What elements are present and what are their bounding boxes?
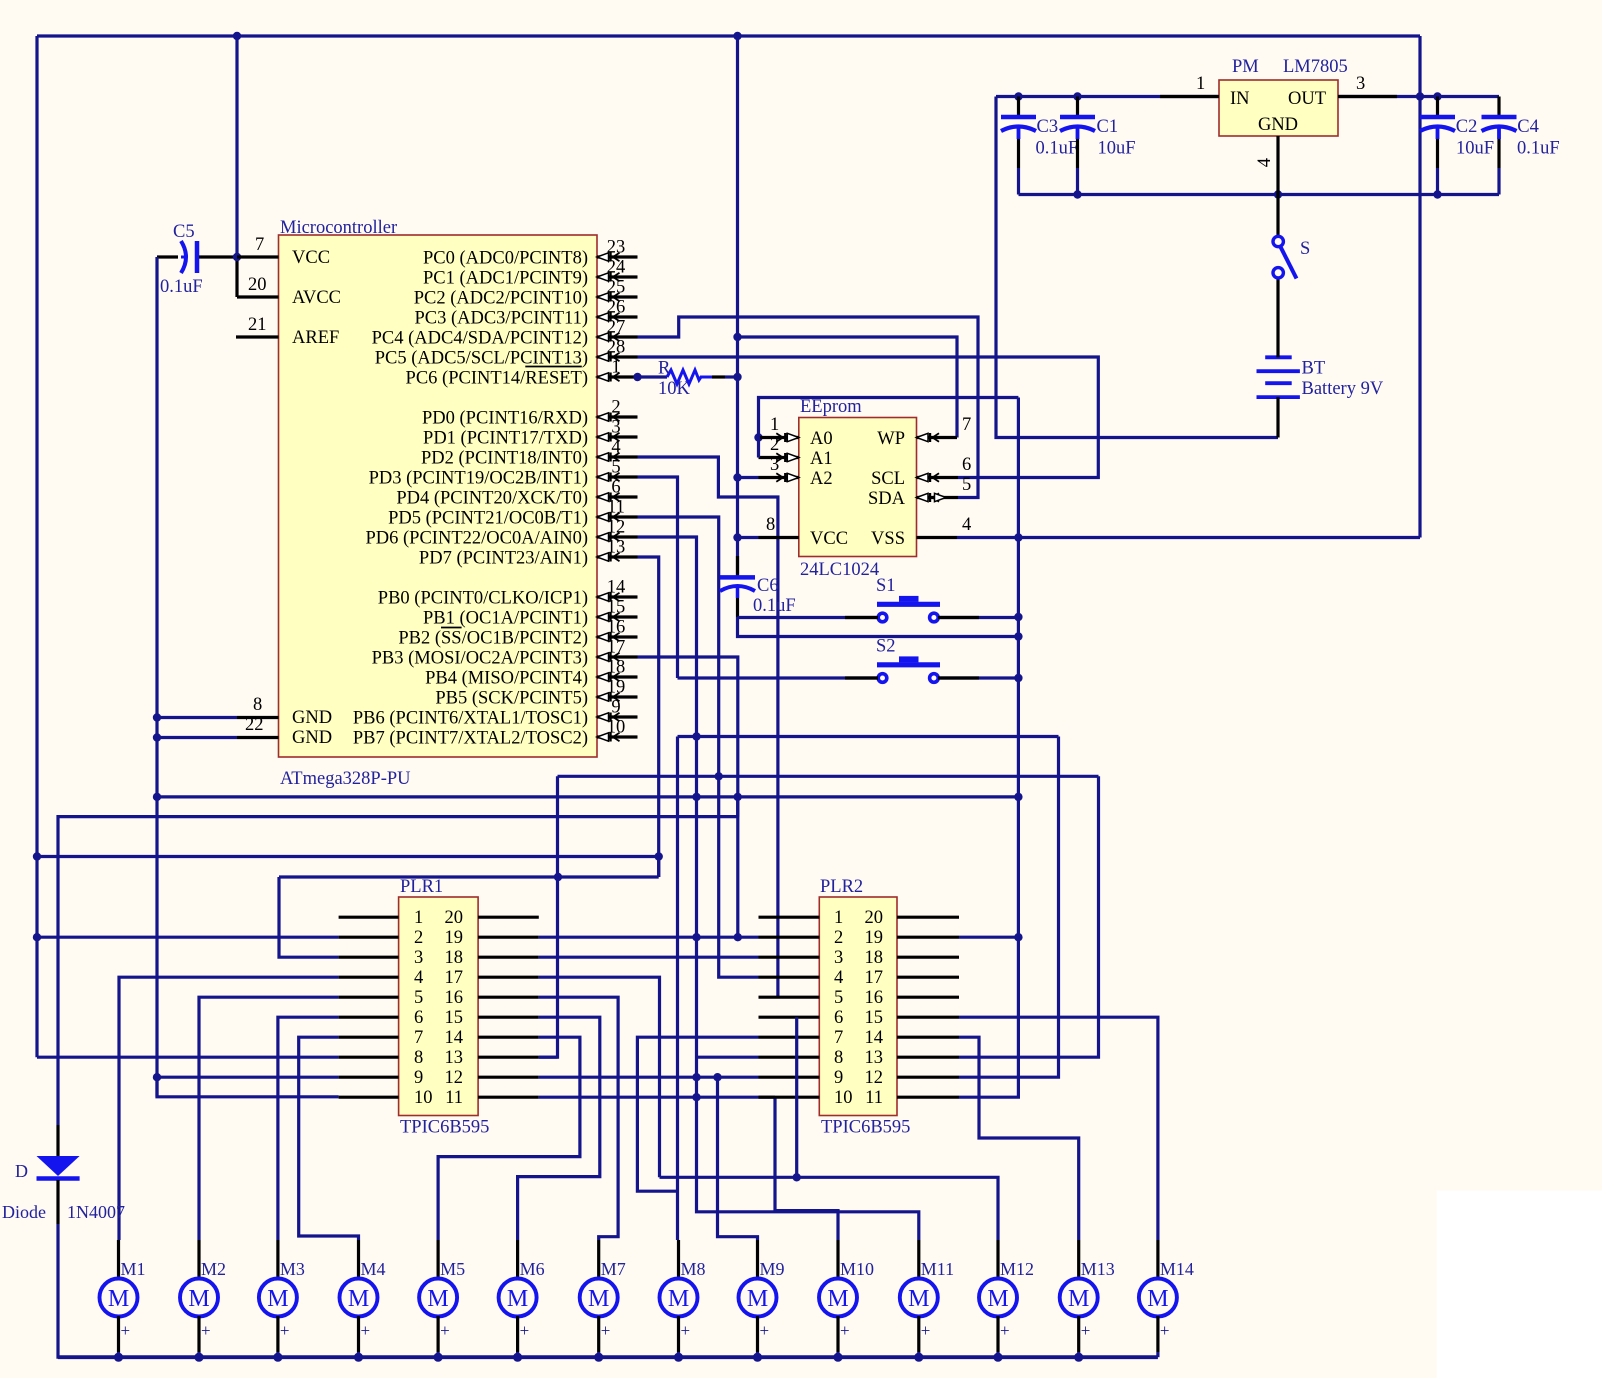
- svg-text:M: M: [1147, 1286, 1168, 1312]
- wire PB3 net: [638, 657, 743, 941]
- svg-text:4: 4: [962, 515, 971, 535]
- wire S1 left: [738, 616, 879, 619]
- EEPROM pin names: [810, 429, 906, 549]
- svg-text:M: M: [507, 1286, 528, 1312]
- svg-text:9: 9: [414, 1068, 423, 1088]
- svg-text:SCL: SCL: [871, 469, 905, 489]
- svg-text:20: 20: [248, 275, 267, 295]
- svg-text:PLR2: PLR2: [820, 877, 863, 897]
- svg-text:C3: C3: [1037, 117, 1059, 137]
- wire PLR1 pin9 row: [157, 1076, 339, 1079]
- svg-text:M5: M5: [440, 1259, 465, 1279]
- svg-text:S1: S1: [876, 576, 896, 596]
- svg-text:PD1 (PCINT17/TXD): PD1 (PCINT17/TXD): [423, 429, 588, 449]
- svg-text:10uF: 10uF: [1098, 139, 1136, 159]
- svg-text:M4: M4: [361, 1259, 386, 1279]
- wire S2 right: [938, 676, 1018, 679]
- svg-text:8: 8: [414, 1048, 423, 1068]
- svg-text:PC2 (ADC2/PCINT10): PC2 (ADC2/PCINT10): [414, 289, 588, 309]
- svg-text:PB3 (MOSI/OC2A/PCINT3): PB3 (MOSI/OC2A/PCINT3): [372, 649, 588, 669]
- MCU pin 4 PD2 stub: [421, 438, 638, 469]
- wire PLR1 pin17 row to y1177: [539, 977, 660, 1177]
- wire S1 right: [938, 616, 1018, 619]
- wire net y776: [558, 775, 1099, 778]
- svg-text:+: +: [121, 1321, 131, 1340]
- svg-text:18: 18: [865, 948, 884, 968]
- svg-text:C2: C2: [1456, 117, 1478, 137]
- PLR1 pin 8 stub: [339, 1056, 399, 1059]
- wire PLR2 pin8 row: [697, 1056, 759, 1059]
- svg-text:D: D: [15, 1161, 28, 1181]
- EEPROM pin 4 VSS stub and wire: [917, 515, 1421, 538]
- regulator pin 3 stub: [1338, 74, 1397, 97]
- EEPROM U2 24LC1024 box: [799, 397, 917, 580]
- svg-text:PB4 (MISO/PCINT4): PB4 (MISO/PCINT4): [425, 669, 588, 689]
- svg-text:1N4007: 1N4007: [67, 1202, 125, 1222]
- PLR1 pin 2 stub: [339, 936, 399, 939]
- PLR2 pin 4 stub: [759, 976, 820, 979]
- svg-text:6: 6: [414, 1008, 423, 1028]
- voltage regulator PM LM7805: [1219, 57, 1348, 136]
- svg-text:ATmega328P-PU: ATmega328P-PU: [280, 769, 411, 789]
- svg-text:12: 12: [607, 518, 626, 538]
- svg-text:M9: M9: [760, 1259, 785, 1279]
- battery BT 9V: [1257, 355, 1384, 438]
- MCU pin 2 PD0 stub: [422, 398, 638, 429]
- MCU pin 10 PB7 stub: [353, 718, 638, 749]
- svg-text:PM: PM: [1232, 57, 1259, 77]
- svg-text:M: M: [188, 1286, 209, 1312]
- svg-text:8: 8: [766, 515, 775, 535]
- wire net y877: [279, 857, 659, 882]
- PLR1 pin 6 stub: [339, 1016, 399, 1019]
- motor M8: [660, 1240, 706, 1357]
- svg-text:PC6 (PCINT14/RESET): PC6 (PCINT14/RESET): [406, 369, 588, 389]
- svg-text:WP: WP: [877, 429, 905, 449]
- motor M11: [900, 1240, 954, 1357]
- PLR2 pin 12 stub: [897, 1076, 959, 1079]
- svg-text:16: 16: [445, 988, 464, 1008]
- svg-text:+: +: [1160, 1321, 1170, 1340]
- MCU pin 28 PC5 stub: [375, 338, 638, 369]
- motor M4: [340, 1240, 386, 1357]
- svg-text:PD5 (PCINT21/OC0B/T1): PD5 (PCINT21/OC0B/T1): [388, 509, 588, 529]
- svg-text:M14: M14: [1160, 1259, 1194, 1279]
- capacitor C5: [157, 222, 237, 297]
- svg-text:A0: A0: [810, 429, 833, 449]
- wire PLR1 pin12 row to M9 and PLR2 pin9: [539, 1073, 759, 1240]
- PLR2 pin 18 stub: [897, 956, 959, 959]
- svg-text:+: +: [681, 1321, 691, 1340]
- svg-text:+: +: [760, 1321, 770, 1340]
- MCU pin 16 PB2 stub: [398, 618, 637, 649]
- PLR1 pin 7 stub: [339, 1036, 399, 1039]
- svg-text:7: 7: [414, 1028, 423, 1048]
- svg-text:BT: BT: [1302, 359, 1326, 379]
- motor M12: [979, 1240, 1034, 1357]
- MCU pin 3 PD1 stub: [423, 418, 637, 449]
- svg-text:13: 13: [865, 1048, 884, 1068]
- svg-text:6: 6: [611, 478, 620, 498]
- PLR2 pin 19 stub: [897, 936, 959, 939]
- svg-text:M: M: [747, 1286, 768, 1312]
- svg-text:7: 7: [834, 1028, 843, 1048]
- wire PD7 net: [638, 557, 663, 877]
- svg-text:+: +: [520, 1321, 530, 1340]
- svg-text:+: +: [361, 1321, 371, 1340]
- motor M3: [259, 1240, 305, 1357]
- svg-text:+: +: [201, 1321, 211, 1340]
- svg-text:PD6 (PCINT22/OC0A/AIN0): PD6 (PCINT22/OC0A/AIN0): [365, 529, 588, 549]
- svg-text:5: 5: [414, 988, 423, 1008]
- svg-text:PC0 (ADC0/PCINT8): PC0 (ADC0/PCINT8): [423, 249, 588, 269]
- wire left frame vertical: [33, 36, 41, 1057]
- svg-text:+: +: [1000, 1321, 1010, 1340]
- PLR2 pin 20 stub: [897, 916, 959, 919]
- MCU pin 6 PD4 stub: [396, 478, 637, 509]
- svg-text:3: 3: [770, 455, 779, 475]
- motor M5: [419, 1240, 465, 1357]
- EEPROM pin 5 SDA stub: [917, 475, 972, 502]
- svg-text:+: +: [601, 1321, 611, 1340]
- svg-text:8: 8: [834, 1048, 843, 1068]
- PLR1 pin 19 stub: [478, 936, 539, 939]
- PLR2 pin 11 stub: [897, 1096, 959, 1099]
- svg-text:SDA: SDA: [868, 489, 906, 509]
- svg-text:A2: A2: [810, 469, 833, 489]
- svg-text:PB5 (SCK/PCINT5): PB5 (SCK/PCINT5): [435, 689, 588, 709]
- svg-text:S: S: [1300, 239, 1310, 259]
- svg-text:20: 20: [865, 908, 884, 928]
- motor M9: [739, 1240, 785, 1357]
- svg-text:10: 10: [414, 1088, 433, 1108]
- svg-text:C4: C4: [1517, 117, 1539, 137]
- svg-text:PB7 (PCINT7/XTAL2/TOSC2): PB7 (PCINT7/XTAL2/TOSC2): [353, 729, 588, 749]
- overline SS: [441, 627, 462, 629]
- wire regulator output rail: [1338, 92, 1499, 100]
- wire net y856: [37, 855, 659, 858]
- wire PLR1 pin11 row to M10 and PLR2 pin10: [539, 1097, 838, 1240]
- MCU pin 13 PD7 stub: [419, 538, 638, 569]
- wire PLR1 pin10 row: [157, 1077, 339, 1097]
- wire PLR2 pin6 to y1177: [793, 1017, 801, 1181]
- svg-text:Battery 9V: Battery 9V: [1302, 379, 1384, 399]
- svg-text:15: 15: [445, 1008, 464, 1028]
- wire PLR1 pin7 row to M4: [299, 1037, 359, 1240]
- PLR2 pin 10 stub: [759, 1096, 820, 1099]
- svg-text:27: 27: [607, 318, 626, 338]
- motor M7: [580, 1240, 626, 1357]
- svg-text:EEprom: EEprom: [800, 397, 862, 417]
- PLR2 pin 2 stub: [759, 936, 820, 939]
- svg-text:PB2 (SS/OC1B/PCINT2): PB2 (SS/OC1B/PCINT2): [398, 629, 588, 649]
- wire x1018 long vertical: [959, 398, 1023, 1098]
- svg-text:VCC: VCC: [810, 529, 848, 549]
- MCU pin 17 PB3 stub: [372, 638, 638, 669]
- wire PLR1 pin19 row to PLR2 pin2: [539, 936, 759, 939]
- svg-text:3: 3: [611, 418, 620, 438]
- PLR1 pin 16 stub: [478, 996, 539, 999]
- svg-text:11: 11: [865, 1088, 883, 1108]
- PLR1 pin 17 stub: [478, 976, 539, 979]
- pushbutton S1: [876, 576, 940, 622]
- svg-text:14: 14: [445, 1028, 464, 1048]
- svg-text:M7: M7: [601, 1259, 626, 1279]
- wire x677 vertical to M8: [676, 737, 679, 1241]
- PLR2 pin 8 stub: [759, 1056, 820, 1059]
- MCU pin 1 PC6 stub: [406, 358, 638, 389]
- PLR1 pin 15 stub: [478, 1016, 539, 1019]
- svg-text:PD7 (PCINT23/AIN1): PD7 (PCINT23/AIN1): [419, 549, 588, 569]
- svg-text:2: 2: [834, 928, 843, 948]
- svg-text:PLR1: PLR1: [400, 877, 443, 897]
- svg-text:9: 9: [834, 1068, 843, 1088]
- svg-text:M3: M3: [280, 1259, 305, 1279]
- svg-text:PD2 (PCINT18/INT0): PD2 (PCINT18/INT0): [421, 449, 588, 469]
- white margin area bottom-right: [1437, 1190, 1602, 1378]
- svg-text:5: 5: [834, 988, 843, 1008]
- svg-text:M: M: [827, 1286, 848, 1312]
- svg-text:OUT: OUT: [1288, 89, 1326, 109]
- wire net y797: [157, 793, 1018, 801]
- resistor R 10K: [633, 359, 741, 400]
- wire PLR1 pin13 row: [539, 1056, 558, 1059]
- svg-text:14: 14: [865, 1028, 884, 1048]
- svg-text:1: 1: [611, 358, 620, 378]
- wire PLR1 pin15 row to M6: [518, 1017, 600, 1240]
- motor M13: [1060, 1240, 1115, 1357]
- PLR1 pin 1 stub: [339, 916, 399, 919]
- svg-text:2: 2: [770, 435, 779, 455]
- wire ground rail under regulator: [1019, 190, 1500, 198]
- diode D 1N4007: [2, 1125, 125, 1224]
- wire x1058 vertical PLR2 pin12: [959, 737, 1059, 1078]
- svg-text:Microcontroller: Microcontroller: [280, 218, 397, 238]
- MCU pin 22 GND wire and stub: [157, 715, 279, 738]
- svg-text:GND: GND: [1258, 115, 1298, 135]
- MCU pin 5 PD3 stub: [369, 458, 638, 489]
- MCU pin 20 AVCC stub: [237, 275, 279, 297]
- MCU pin 26 PC3 stub: [414, 298, 637, 329]
- wire top +V rail: [37, 32, 1420, 40]
- svg-text:M: M: [987, 1286, 1008, 1312]
- svg-text:0.1uF: 0.1uF: [753, 596, 796, 616]
- MCU pin 11 PD5 stub: [388, 498, 637, 529]
- wire bottom bus: [58, 1353, 1158, 1362]
- svg-text:PD4 (PCINT20/XCK/T0): PD4 (PCINT20/XCK/T0): [396, 489, 588, 509]
- svg-text:PC5 (ADC5/SCL/PCINT13): PC5 (ADC5/SCL/PCINT13): [375, 349, 588, 369]
- svg-text:M: M: [668, 1286, 689, 1312]
- svg-text:7: 7: [962, 415, 971, 435]
- PLR2 pin 16 stub: [897, 996, 959, 999]
- motor M1: [100, 1240, 146, 1357]
- wire PD5 net to PLR2 pin4: [638, 517, 759, 977]
- PLR1 pin 11 stub: [478, 1096, 539, 1099]
- microcontroller U1 ATmega328P-PU box: [279, 218, 598, 789]
- svg-text:PD0 (PCINT16/RXD): PD0 (PCINT16/RXD): [422, 409, 588, 429]
- svg-text:M11: M11: [921, 1259, 954, 1279]
- shift register PLR2 TPIC6B595 box: [819, 877, 910, 1138]
- capacitor C2: [1420, 97, 1494, 195]
- svg-text:25: 25: [607, 278, 626, 298]
- svg-text:18: 18: [607, 658, 626, 678]
- svg-text:0.1uF: 0.1uF: [1517, 139, 1560, 159]
- MCU pin 25 PC2 stub: [414, 278, 638, 309]
- svg-text:0.1uF: 0.1uF: [160, 277, 203, 297]
- wire PD3 net to S2: [638, 477, 678, 678]
- svg-text:+: +: [921, 1321, 931, 1340]
- svg-text:PC3 (ADC3/PCINT11): PC3 (ADC3/PCINT11): [414, 309, 588, 329]
- svg-text:3: 3: [1356, 74, 1365, 94]
- EEPROM pin 1 A0 stub: [754, 415, 799, 442]
- svg-text:10K: 10K: [658, 379, 691, 399]
- svg-text:1: 1: [834, 908, 843, 928]
- svg-text:16: 16: [865, 988, 884, 1008]
- svg-text:M: M: [427, 1286, 448, 1312]
- svg-text:PC4 (ADC4/SDA/PCINT12): PC4 (ADC4/SDA/PCINT12): [372, 329, 588, 349]
- regulator pin 1 stub: [1160, 74, 1219, 97]
- MCU pin 27 PC4 stub: [372, 318, 638, 349]
- svg-text:VSS: VSS: [871, 529, 905, 549]
- MCU pin 8 GND wire and stub: [157, 695, 279, 718]
- svg-text:21: 21: [248, 315, 267, 335]
- svg-text:17: 17: [445, 968, 464, 988]
- MCU pin 19 PB5 stub: [435, 678, 637, 709]
- svg-text:M: M: [348, 1286, 369, 1312]
- PLR1 pin numbers: [414, 908, 463, 1108]
- svg-text:C5: C5: [173, 222, 195, 242]
- svg-text:M: M: [108, 1286, 129, 1312]
- EEPROM pin 7 WP stub: [917, 415, 972, 442]
- svg-text:5: 5: [962, 475, 971, 495]
- svg-text:10uF: 10uF: [1456, 139, 1494, 159]
- wire jog y797 to y816: [736, 797, 739, 817]
- wire PLR1 pin14 row to M5: [438, 1037, 580, 1240]
- PLR2 pin 13 stub: [897, 1056, 959, 1059]
- svg-text:4: 4: [611, 438, 620, 458]
- pushbutton S2: [876, 637, 940, 683]
- PLR1 pin 20 stub: [478, 916, 539, 919]
- svg-text:13: 13: [607, 538, 626, 558]
- wire PLR1 pin2 row to frame: [37, 936, 339, 939]
- motor M2: [180, 1240, 226, 1357]
- wire PLR1 pin6 row to M3: [278, 1017, 339, 1240]
- svg-text:2: 2: [611, 398, 620, 418]
- svg-text:2: 2: [414, 928, 423, 948]
- svg-text:24LC1024: 24LC1024: [800, 560, 879, 580]
- svg-text:11: 11: [445, 1088, 463, 1108]
- svg-text:M12: M12: [1000, 1259, 1034, 1279]
- svg-text:PC1 (ADC1/PCINT9): PC1 (ADC1/PCINT9): [423, 269, 588, 289]
- wire x558 vertical PLR1 pin13: [539, 776, 558, 1057]
- svg-text:GND: GND: [292, 708, 332, 728]
- PLR2 pin 6 stub: [759, 1016, 820, 1019]
- svg-text:19: 19: [865, 928, 884, 948]
- svg-text:19: 19: [445, 928, 464, 948]
- svg-text:PD3 (PCINT19/OC2B/INT1): PD3 (PCINT19/OC2B/INT1): [369, 469, 588, 489]
- svg-text:M13: M13: [1081, 1259, 1115, 1279]
- PLR2 pin 5 stub: [759, 996, 820, 999]
- svg-text:20: 20: [445, 908, 464, 928]
- svg-text:8: 8: [253, 695, 262, 715]
- PLR1 pin 3 stub: [339, 956, 399, 959]
- capacitor C1: [1060, 97, 1136, 195]
- svg-text:A1: A1: [810, 449, 833, 469]
- svg-text:15: 15: [865, 1008, 884, 1028]
- svg-text:IN: IN: [1230, 89, 1250, 109]
- svg-text:9: 9: [611, 698, 620, 718]
- PLR1 pin 14 stub: [478, 1036, 539, 1039]
- svg-text:LM7805: LM7805: [1283, 57, 1348, 77]
- svg-text:R: R: [658, 359, 671, 379]
- wire x279 to PLR1 pin3: [279, 877, 339, 957]
- svg-text:M: M: [267, 1286, 288, 1312]
- svg-text:26: 26: [607, 298, 626, 318]
- wire PC5-SCL net: [638, 357, 1099, 478]
- svg-text:28: 28: [607, 338, 626, 358]
- PLR2 pin 7 stub: [759, 1036, 820, 1039]
- svg-text:PB6 (PCINT6/XTAL1/TOSC1): PB6 (PCINT6/XTAL1/TOSC1): [353, 709, 588, 729]
- wire battery positive return: [996, 97, 1278, 438]
- svg-text:4: 4: [834, 968, 843, 988]
- svg-text:PB1 (OC1A/PCINT1): PB1 (OC1A/PCINT1): [423, 609, 588, 629]
- wire x1098 vertical PLR2 pin13: [959, 776, 1099, 1057]
- svg-text:24: 24: [607, 258, 626, 278]
- svg-text:7: 7: [255, 235, 264, 255]
- svg-text:10: 10: [607, 718, 626, 738]
- svg-text:M10: M10: [840, 1259, 874, 1279]
- wire PLR1 pin8 row: [37, 1056, 339, 1059]
- wire y1177 to M12: [660, 1177, 999, 1240]
- PLR2 pin 3 stub: [759, 956, 820, 959]
- svg-text:+: +: [840, 1321, 850, 1340]
- MCU pin 12 PD6 stub: [365, 518, 637, 549]
- PLR2 pin numbers: [834, 908, 883, 1108]
- svg-text:14: 14: [607, 578, 626, 598]
- svg-text:GND: GND: [292, 728, 332, 748]
- svg-text:PB0 (PCINT0/CLKO/ICP1): PB0 (PCINT0/CLKO/ICP1): [378, 589, 588, 609]
- svg-text:M: M: [588, 1286, 609, 1312]
- EEPROM pin 3 A2 stub: [738, 455, 799, 482]
- wire PLR2 pin19 row: [959, 936, 1018, 939]
- capacitor C4: [1482, 97, 1560, 195]
- wire PLR1 pin5 row to M2: [199, 997, 339, 1240]
- MCU pin 18 PB4 stub: [425, 658, 637, 689]
- wire PC4-SDA net: [638, 317, 979, 498]
- wire WP to VCC net: [738, 337, 958, 438]
- motor M14: [1139, 1240, 1194, 1357]
- PLR2 pin 9 stub: [759, 1076, 820, 1079]
- svg-text:S2: S2: [876, 637, 896, 657]
- svg-text:1: 1: [770, 415, 779, 435]
- wire C5 to GND net vertical x157: [153, 257, 161, 1097]
- svg-text:VCC: VCC: [292, 248, 330, 268]
- svg-text:4: 4: [414, 968, 423, 988]
- svg-text:18: 18: [445, 948, 464, 968]
- svg-text:AVCC: AVCC: [292, 288, 341, 308]
- PLR1 pin 12 stub: [478, 1076, 539, 1079]
- regulator pin 4 stub: [1255, 136, 1278, 195]
- svg-text:M6: M6: [520, 1259, 545, 1279]
- PLR1 pin 5 stub: [339, 996, 399, 999]
- svg-text:3: 3: [414, 948, 423, 968]
- svg-text:TPIC6B595: TPIC6B595: [821, 1118, 910, 1138]
- MCU left pin names: [292, 248, 341, 748]
- shift register PLR1 TPIC6B595 box: [399, 877, 490, 1138]
- svg-text:+: +: [1081, 1321, 1091, 1340]
- wire PLR2 pin7 row to M8: [637, 1037, 758, 1191]
- svg-text:C6: C6: [757, 576, 779, 596]
